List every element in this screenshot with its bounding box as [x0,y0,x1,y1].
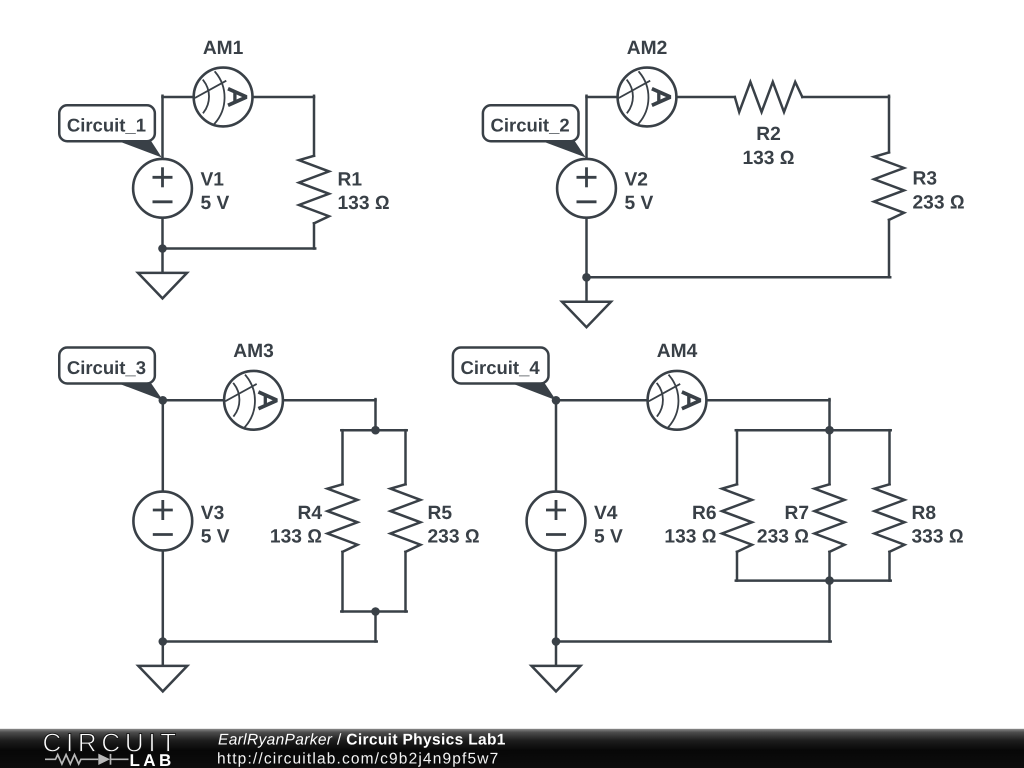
wire AM3 to corner [283,399,376,402]
wire R7 bottom lead [828,552,831,581]
svg-text:133 Ω: 133 Ω [742,148,794,169]
node label Circuit_3 callout [116,383,163,401]
svg-text:V4: V4 [594,503,618,524]
wire V3 bottom [162,550,165,641]
svg-text:R5: R5 [428,503,453,524]
resistor R5 [391,484,421,552]
wire AM1 to R1 top [253,96,314,99]
node top bus junction c4 [825,426,834,435]
wire R1 bottom lead [313,223,316,248]
wire bottom bus circuit 3 [341,610,406,613]
wire bottom rail circuit 1 [163,247,316,250]
wire bus to bottom rail [374,612,377,642]
svg-text:R1: R1 [338,169,363,190]
node label Circuit_1 callout [116,140,162,157]
wire V1 to AM1 top-left [163,96,194,99]
node junction circuit 1 [158,244,167,253]
resistor R2 [735,82,803,112]
wire top bus circuit 3 [341,429,406,432]
svg-text:http://circuitlab.com/c9b2j4n9: http://circuitlab.com/c9b2j4n9pf5w7 [217,750,499,767]
svg-text:V1: V1 [201,169,225,190]
ground GND3 [138,642,187,692]
wire V1 bottom [161,218,164,249]
resistor R1 [299,156,329,224]
svg-text:133 Ω: 133 Ω [338,193,390,214]
wire bus to bottom rail c4 [828,581,831,642]
ground GND2 [562,277,611,327]
node label Circuit_2 callout [540,140,586,157]
wire AM2 to R2 [677,96,735,99]
svg-text:AM2: AM2 [627,38,668,59]
wire bottom rail circuit 3 [163,640,377,643]
wire R4 bottom lead [341,552,344,612]
svg-text:Circuit_1: Circuit_1 [67,115,146,136]
wire R8 top lead [888,430,891,484]
wire R6 bottom lead [736,552,739,581]
svg-text:R3: R3 [913,169,938,190]
svg-text:333 Ω: 333 Ω [912,527,964,548]
svg-text:V2: V2 [625,169,648,190]
wire R6 top lead [736,430,739,484]
wire V3 top vertical [162,400,165,491]
voltage source V4 [527,492,586,551]
ground GND4 [532,642,581,692]
footer bar [0,729,1024,768]
svg-text:5 V: 5 V [625,193,654,214]
wire R8 bottom lead [888,552,891,581]
ammeter AM1 [194,68,253,127]
wire bottom rail circuit 2 [587,276,891,279]
voltage source V1 [133,159,192,218]
resistor R4 [328,484,358,552]
svg-text:133 Ω: 133 Ω [664,527,716,548]
svg-text:Circuit_3: Circuit_3 [67,357,146,378]
node label Circuit_4 callout [510,383,556,401]
svg-text:5 V: 5 V [594,527,623,548]
node junction circuit 3 bottom [159,637,168,646]
wire V4 top vertical [555,400,558,491]
wire corner down to top bus c4 [828,399,831,430]
svg-text:AM1: AM1 [203,38,244,59]
svg-text:233 Ω: 233 Ω [913,192,965,213]
wire R2 to corner [802,96,889,99]
node junction circuit 2 [582,273,591,282]
svg-text:Circuit_4: Circuit_4 [461,357,541,378]
CircuitLab logo diode triangle [98,754,110,765]
svg-text:233 Ω: 233 Ω [757,527,809,548]
wire R4 top lead [341,430,344,484]
node top bus junction [371,426,380,435]
wire V1 top vertical [161,96,164,159]
resistor R3 [874,152,904,220]
svg-text:LAB: LAB [130,751,175,768]
wire R3 bottom lead [888,220,891,277]
node bottom bus junction [371,607,380,616]
resistor R8 [875,484,905,552]
node junction circuit 4 bottom [552,637,561,646]
svg-text:EarlRyanParker / Circuit Physi: EarlRyanParker / Circuit Physics Lab1 [218,732,506,749]
ground GND1 [138,249,187,299]
svg-text:233 Ω: 233 Ω [428,527,480,548]
wire bottom bus circuit 4 [736,579,891,582]
wire node to AM4 [556,399,648,402]
svg-text:R6: R6 [692,503,717,524]
svg-text:R7: R7 [784,503,809,524]
wire V2 to AM2 [587,96,618,99]
wire R7 top lead [828,430,831,484]
wire R5 bottom lead [404,552,407,612]
CircuitLab logo resistor-diode glyph [45,754,129,765]
wire node to AM3 [163,399,224,402]
node junction circuit 4 top [552,396,561,405]
resistor R7 [815,484,845,552]
voltage source V2 [557,159,616,218]
svg-text:AM4: AM4 [657,341,698,362]
wire bottom rail circuit 4 [556,640,831,643]
wire AM4 to corner [707,399,830,402]
wire V2 top vertical [585,96,588,159]
svg-text:R8: R8 [912,503,937,524]
wire top bus circuit 4 [736,429,891,432]
ammeter AM4 [648,371,707,430]
node junction circuit 3 top [159,396,168,405]
wire V4 bottom [555,550,558,641]
svg-text:AM3: AM3 [233,341,274,362]
wire V2 bottom [585,218,588,278]
node bottom bus junction c4 [825,576,834,585]
ammeter AM2 [618,68,677,127]
voltage source V3 [133,492,192,551]
svg-text:V3: V3 [201,503,224,524]
svg-text:5 V: 5 V [201,193,230,214]
wire corner down to top bus [374,399,377,430]
svg-text:5 V: 5 V [201,527,230,548]
svg-text:R2: R2 [756,124,781,145]
wire R3 top lead [888,96,891,153]
resistor R6 [722,484,752,552]
svg-text:Circuit_2: Circuit_2 [491,115,570,136]
wire R5 top lead [404,430,407,484]
svg-text:133 Ω: 133 Ω [270,527,322,548]
svg-text:R4: R4 [297,503,322,524]
ammeter AM3 [224,371,283,430]
wire R1 top lead [313,96,316,156]
